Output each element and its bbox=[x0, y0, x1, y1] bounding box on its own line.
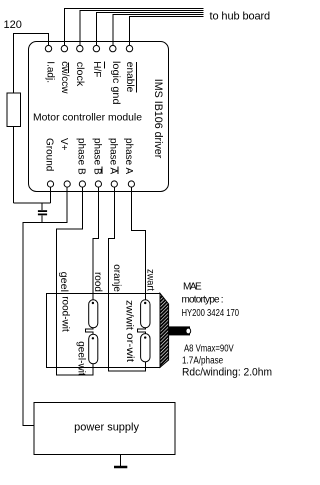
svg-text:phase B: phase B bbox=[75, 138, 86, 175]
motor M1 body bbox=[46, 293, 160, 367]
pin 1 top I.adj bbox=[45, 45, 51, 51]
pin 4 top H/F bbox=[93, 45, 99, 51]
coil L3 (phase A winding upper half) bbox=[141, 300, 150, 328]
svg-text:V+: V+ bbox=[58, 138, 69, 151]
capacitor C1 top plate bbox=[38, 210, 47, 212]
coil L1 polarity dot bbox=[92, 302, 94, 304]
pin 10 bottom phase B-bar bbox=[95, 181, 101, 187]
svg-text:rood: rood bbox=[92, 272, 103, 292]
wire: series hook between L1 and L2 bbox=[85, 328, 93, 334]
svg-text:IMS IB106 driver: IMS IB106 driver bbox=[152, 79, 164, 159]
overline over B of phase B-bar bbox=[101, 167, 103, 174]
resistor R1 120 ohm bbox=[7, 93, 21, 127]
svg-text:clock: clock bbox=[74, 62, 85, 88]
power supply box bbox=[34, 403, 175, 455]
svg-text:120: 120 bbox=[4, 19, 22, 31]
svg-text:Rdc/winding: 2.0hm: Rdc/winding: 2.0hm bbox=[182, 366, 272, 378]
svg-text:geel: geel bbox=[58, 272, 69, 292]
overline over A of phase A-bar bbox=[117, 167, 119, 174]
coil L3 polarity dot bbox=[144, 302, 146, 304]
wire: cw/ccw pin to hub bus line 1 bbox=[64, 9, 203, 46]
svg-text:A8 Vmax=90V: A8 Vmax=90V bbox=[184, 343, 234, 354]
svg-text:I.adj.: I.adj. bbox=[44, 61, 55, 83]
pin 3 top clock bbox=[77, 45, 83, 51]
capacitor C1 bottom stub bbox=[41, 215, 43, 222]
overline over H of H/F bbox=[103, 61, 105, 68]
svg-text:phase B: phase B bbox=[91, 138, 102, 175]
wire: clock pin to hub bus line 2 bbox=[80, 11, 204, 46]
svg-text:power supply: power supply bbox=[74, 422, 139, 434]
wire: enable pin to hub bus line 5 bbox=[130, 17, 204, 46]
motor shaft end cap bbox=[186, 328, 191, 334]
overline over cw of cw/ccw bbox=[68, 63, 70, 74]
coil L1 (phase B winding upper half) bbox=[89, 300, 98, 328]
pin 6 top enable bbox=[126, 45, 132, 51]
svg-text:Motor controller module: Motor controller module bbox=[33, 111, 142, 123]
svg-text:rood-wit: rood-wit bbox=[59, 296, 70, 332]
ground bar bbox=[114, 466, 127, 469]
pin 12 bottom phase A bbox=[128, 181, 134, 187]
pin 2 top cw/ccw bbox=[61, 45, 67, 51]
svg-text:MAE: MAE bbox=[183, 282, 202, 293]
wire: H/F pin to hub bus line 3 bbox=[96, 13, 203, 46]
wire: ground rail bbox=[14, 202, 51, 204]
svg-text:to hub board: to hub board bbox=[210, 10, 271, 22]
coil L4 (phase A winding lower half) bbox=[141, 334, 150, 362]
pin 8 bottom V+ bbox=[64, 181, 70, 187]
svg-text:phase A: phase A bbox=[107, 138, 118, 174]
svg-text:1.7A/phase: 1.7A/phase bbox=[182, 356, 224, 367]
coil L2 (phase B winding lower half) bbox=[89, 334, 98, 364]
capacitor C1 bottom plate bbox=[38, 214, 47, 216]
coil L4 polarity dot bbox=[144, 336, 146, 338]
svg-text:HY200 3424 170: HY200 3424 170 bbox=[182, 308, 240, 319]
motor shaft bbox=[169, 326, 190, 335]
pin 11 bottom phase A-bar bbox=[111, 181, 117, 187]
pin 7 bottom Ground bbox=[47, 181, 53, 187]
svg-text:zwart: zwart bbox=[144, 269, 155, 291]
wire: Ground pin stem bbox=[50, 187, 52, 203]
svg-text:logic gnd: logic gnd bbox=[110, 61, 121, 105]
wire: V+ pin down, rail left and down to power supply bbox=[23, 187, 67, 425]
wire: phase B to motor geel lead and return to coil bottom bbox=[57, 187, 94, 375]
wire: logic gnd pin to hub bus line 4 bbox=[113, 15, 204, 46]
wire: phase B-bar to motor rood lead bbox=[93, 187, 98, 300]
svg-text:H/F: H/F bbox=[91, 61, 102, 77]
svg-text:oranje: oranje bbox=[111, 264, 122, 292]
wire: I.adj pin up-left to resistor top bbox=[14, 34, 49, 94]
coil L2 polarity dot bbox=[92, 337, 94, 339]
svg-text:Ground: Ground bbox=[44, 138, 55, 171]
overline over enable bbox=[136, 62, 138, 93]
svg-text:motortype :: motortype : bbox=[182, 295, 223, 306]
ground stub below power supply bbox=[120, 455, 122, 467]
capacitor C1 top stub bbox=[41, 203, 43, 210]
op-amp U1 module body: Motor controller module bbox=[29, 42, 169, 192]
wire: phase A to motor zwart lead bbox=[131, 187, 145, 300]
pin 9 bottom phase B bbox=[79, 181, 85, 187]
svg-text:enable: enable bbox=[124, 62, 135, 93]
pin 5 top logic gnd bbox=[110, 45, 116, 51]
svg-text:or-wit: or-wit bbox=[124, 333, 135, 362]
svg-text:zw/wit: zw/wit bbox=[123, 300, 134, 330]
wire: phase A-bar to motor oranje lead and return to coil bottom bbox=[109, 187, 146, 371]
wire: resistor bottom down to ground rail bbox=[13, 127, 15, 204]
svg-text:geel-wit: geel-wit bbox=[76, 341, 87, 376]
motor rear face (hatched) bbox=[160, 293, 169, 367]
svg-text:phase A: phase A bbox=[123, 138, 134, 174]
wire: series hook between L3 and L4 bbox=[138, 328, 146, 334]
